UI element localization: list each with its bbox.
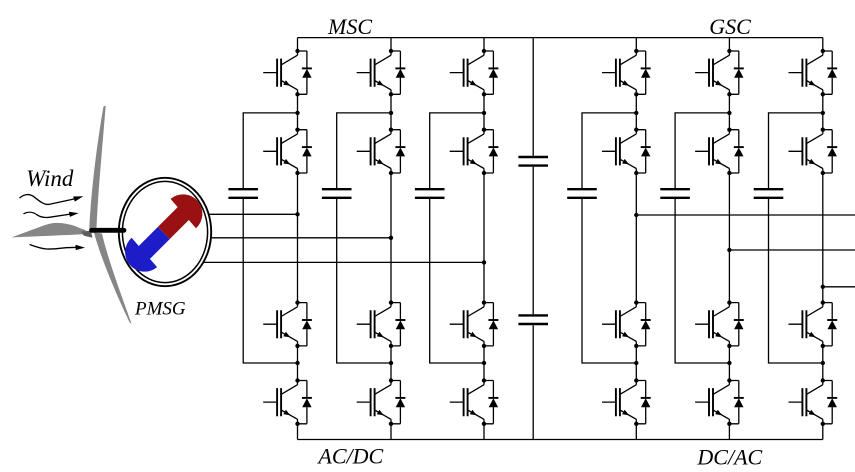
node: GSC leg 2 AC phase tap bbox=[727, 248, 731, 252]
svg-text:DC/AC: DC/AC bbox=[696, 445, 762, 470]
transistor S21: outer-upper IGBT with anti-parallel diode (MSC leg 2) bbox=[357, 49, 406, 97]
svg-text:PMSG: PMSG bbox=[134, 299, 186, 320]
capacitor Cdc2 (lower DC-link capacitor) bbox=[518, 315, 548, 324]
transistor S32: inner-upper IGBT with anti-parallel diode (MSC leg 3) bbox=[450, 128, 499, 176]
wire: machine phase a from PMSG to MSC leg 1 bbox=[203, 213, 298, 215]
node: MSC leg 3 lower flying-capacitor junction bbox=[482, 361, 486, 365]
turbine blade (upper) bbox=[89, 106, 105, 230]
capacitor Cg3: flying capacitor of GSC leg 3 with connecting wires bbox=[754, 113, 823, 363]
wire: GSC leg 2 vertical conductors bbox=[728, 38, 730, 440]
wire: MSC leg 2 vertical conductors bbox=[390, 38, 392, 440]
wire: machine phase c from PMSG to MSC leg 3 bbox=[203, 261, 484, 263]
transistor S24: outer-lower IGBT with anti-parallel diode (MSC leg 2) bbox=[357, 378, 406, 426]
svg-text:GSC: GSC bbox=[709, 14, 751, 39]
transistor T32: inner-upper IGBT with anti-parallel diode (GSC leg 3) bbox=[789, 128, 838, 176]
wind flow arrow 1 (wavy) bbox=[20, 195, 84, 205]
node: GSC leg 2 lower flying-capacitor junction bbox=[727, 361, 731, 365]
turbine hub (dark overlap) bbox=[81, 231, 93, 238]
PMSG rotor permanent magnet (red N pole / blue S pole) bbox=[117, 186, 210, 279]
transistor T22: inner-upper IGBT with anti-parallel diode (GSC leg 2) bbox=[695, 128, 744, 176]
wire: GSC leg 3 vertical conductors bbox=[822, 38, 824, 440]
node: GSC leg 3 AC phase tap bbox=[821, 285, 825, 289]
transistor S22: inner-upper IGBT with anti-parallel diode (MSC leg 2) bbox=[357, 128, 406, 176]
wire: machine phase b from PMSG to MSC leg 2 bbox=[203, 237, 391, 239]
transistor S13: inner-lower IGBT with anti-parallel diode (MSC leg 1) bbox=[263, 300, 312, 348]
transistor T11: outer-upper IGBT with anti-parallel diode (GSC leg 1) bbox=[602, 49, 651, 97]
node: MSC leg 2 lower flying-capacitor junction bbox=[389, 361, 393, 365]
transistor S31: outer-upper IGBT with anti-parallel diode (MSC leg 3) bbox=[450, 49, 499, 97]
transistor S12: inner-upper IGBT with anti-parallel diode (MSC leg 1) bbox=[263, 128, 312, 176]
transistor S11: outer-upper IGBT with anti-parallel diode (MSC leg 1) bbox=[263, 49, 312, 97]
transistor T12: inner-upper IGBT with anti-parallel diode (GSC leg 1) bbox=[602, 128, 651, 176]
wire: grid phase c from GSC leg 3 to grid bbox=[823, 286, 855, 288]
node: MSC leg 3 AC phase tap bbox=[482, 260, 486, 264]
transistor S23: inner-lower IGBT with anti-parallel diode (MSC leg 2) bbox=[357, 300, 406, 348]
node: GSC leg 1 upper flying-capacitor junction bbox=[634, 111, 638, 115]
capacitor Cf1: flying capacitor of MSC leg 1 with connecting wires bbox=[228, 113, 297, 363]
wire: DC-link vertical branch bbox=[532, 38, 534, 440]
wire: MSC leg 1 vertical conductors bbox=[297, 38, 299, 440]
svg-text:Wind: Wind bbox=[26, 166, 74, 191]
capacitor Cdc1 (upper DC-link capacitor) bbox=[518, 157, 548, 166]
wind flow arrow 3 (wavy) bbox=[30, 245, 85, 251]
svg-text:MSC: MSC bbox=[327, 14, 372, 39]
wire: negative DC bus (bottom rail) bbox=[298, 439, 823, 441]
transistor T14: outer-lower IGBT with anti-parallel diode (GSC leg 1) bbox=[602, 378, 651, 426]
node: MSC leg 2 upper flying-capacitor junction bbox=[389, 111, 393, 115]
wire: positive DC bus (top rail) bbox=[298, 37, 823, 39]
svg-text:AC/DC: AC/DC bbox=[316, 444, 383, 469]
node: GSC leg 1 lower flying-capacitor junction bbox=[634, 361, 638, 365]
node: GSC leg 2 upper flying-capacitor junction bbox=[727, 111, 731, 115]
node: GSC leg 1 AC phase tap bbox=[634, 213, 638, 217]
wire: grid phase b from GSC leg 2 to grid bbox=[729, 249, 855, 251]
transistor S33: inner-lower IGBT with anti-parallel diode (MSC leg 3) bbox=[450, 300, 499, 348]
shaft from turbine hub to generator bbox=[92, 228, 125, 233]
transistor T34: outer-lower IGBT with anti-parallel diode (GSC leg 3) bbox=[789, 378, 838, 426]
capacitor Cf3: flying capacitor of MSC leg 3 with connecting wires bbox=[415, 113, 484, 363]
capacitor Cg2: flying capacitor of GSC leg 2 with connecting wires bbox=[660, 113, 729, 363]
transistor T13: inner-lower IGBT with anti-parallel diode (GSC leg 1) bbox=[602, 300, 651, 348]
transistor S14: outer-lower IGBT with anti-parallel diode (MSC leg 1) bbox=[263, 378, 312, 426]
node: GSC leg 3 lower flying-capacitor junction bbox=[821, 361, 825, 365]
wire: MSC leg 3 vertical conductors bbox=[483, 38, 485, 440]
node: MSC leg 1 lower flying-capacitor junction bbox=[295, 361, 299, 365]
turbine blade (lower) bbox=[94, 233, 132, 324]
generator PMSG stator: double ellipse bbox=[119, 178, 211, 286]
wind flow arrow 2 (wavy) bbox=[24, 212, 79, 218]
node: MSC leg 1 AC phase tap bbox=[295, 212, 299, 216]
transistor S34: outer-lower IGBT with anti-parallel diode (MSC leg 3) bbox=[450, 378, 499, 426]
transistor T33: inner-lower IGBT with anti-parallel diode (GSC leg 3) bbox=[789, 300, 838, 348]
turbine blade (left) bbox=[12, 223, 87, 238]
node: GSC leg 3 upper flying-capacitor junction bbox=[821, 111, 825, 115]
transistor T21: outer-upper IGBT with anti-parallel diode (GSC leg 2) bbox=[695, 49, 744, 97]
transistor T24: outer-lower IGBT with anti-parallel diode (GSC leg 2) bbox=[695, 378, 744, 426]
node: MSC leg 3 upper flying-capacitor junction bbox=[482, 111, 486, 115]
capacitor Cg1: flying capacitor of GSC leg 1 with connecting wires bbox=[567, 113, 636, 363]
capacitor Cf2: flying capacitor of MSC leg 2 with connecting wires bbox=[322, 113, 391, 363]
transistor T23: inner-lower IGBT with anti-parallel diode (GSC leg 2) bbox=[695, 300, 744, 348]
wire: GSC leg 1 vertical conductors bbox=[635, 38, 637, 440]
node: MSC leg 2 AC phase tap bbox=[389, 236, 393, 240]
node: MSC leg 1 upper flying-capacitor junction bbox=[295, 111, 299, 115]
wire: grid phase a from GSC leg 1 to grid bbox=[636, 214, 855, 216]
transistor T31: outer-upper IGBT with anti-parallel diode (GSC leg 3) bbox=[789, 49, 838, 97]
